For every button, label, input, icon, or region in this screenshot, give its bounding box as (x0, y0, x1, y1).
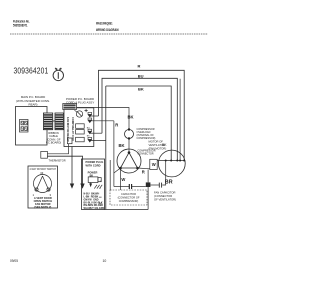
stamp circled symbol (53, 68, 63, 80)
svg-text:CONNECTOR: CONNECTOR (138, 153, 154, 156)
wire loop R (outer) (99, 70, 185, 160)
wire loop BK (inner) (106, 86, 171, 161)
thermistor connector (41, 151, 48, 158)
tiny cross component (85, 109, 88, 112)
svg-text:BR: BR (165, 179, 173, 185)
wire compressor left terminal down (120, 168, 122, 190)
relay rect 3 (76, 137, 85, 142)
header publication no (13, 20, 30, 28)
svg-text:WAS10M6Q8E1: WAS10M6Q8E1 (96, 22, 113, 26)
compressor capacitor label (118, 192, 140, 203)
svg-text:BU: BU (138, 73, 144, 78)
wire overload to compressor (128, 139, 130, 153)
svg-text:BK: BK (119, 143, 125, 148)
fan motor circle (158, 150, 185, 177)
svg-text:REAR): REAR) (29, 103, 38, 107)
power box side labels (99, 181, 102, 205)
compressor motor circle (117, 149, 141, 173)
wire fan capacitor to junction (150, 184, 159, 186)
wire loop BU (middle) (102, 78, 177, 160)
svg-text:09/05: 09/05 (10, 259, 18, 263)
power cord box (82, 159, 105, 210)
left board inner connector (20, 120, 29, 133)
relay rect 2 (76, 130, 85, 134)
connector symbol row3 (88, 137, 92, 142)
svg-text:CAPACITOR: CAPACITOR (121, 192, 136, 196)
svg-text:WIRING DIAGRAM: WIRING DIAGRAM (96, 28, 119, 32)
svg-text:R: R (142, 170, 145, 175)
left board box (16, 107, 48, 146)
relay switch circle (76, 111, 82, 117)
wire compressor left to W vertical (114, 168, 121, 173)
fan motor label (149, 140, 167, 151)
overload label text (137, 128, 156, 140)
ribbon cable connector right block (55, 113, 64, 130)
svg-text:BU: BU (87, 127, 90, 129)
svg-text:P.C.BOARD): P.C.BOARD) (46, 141, 61, 145)
board output wire row3 (90, 140, 106, 142)
wire compressor right to ladder (138, 167, 150, 170)
capacitor plates (129, 184, 131, 189)
wire W box down (147, 170, 149, 183)
wire W vertical (113, 121, 115, 187)
wire legend text block (84, 193, 105, 211)
right board box (64, 108, 94, 147)
svg-text:OF VENTILATOR): OF VENTILATOR) (154, 198, 176, 202)
ribbon blocks link line (53, 120, 55, 122)
svg-text:R: R (138, 63, 141, 68)
junction square (146, 182, 151, 187)
svg-text:POWER PLUG: POWER PLUG (86, 160, 104, 164)
svg-text:BK: BK (138, 86, 144, 91)
svg-text:COMPRESSOR): COMPRESSOR) (119, 199, 139, 203)
compressor connector label (138, 150, 156, 156)
wire junction to rail (147, 187, 149, 210)
svg-text:L: L (100, 188, 102, 190)
plug cord down arrow (89, 183, 92, 188)
svg-text:BK: BK (128, 115, 134, 120)
wire to overload (77, 108, 130, 130)
board output wire row1 (90, 120, 114, 122)
svg-text:WH-WHT GN-GRN: WH-WHT GN-GRN (84, 207, 105, 210)
wire W box to fan (157, 160, 158, 162)
rotary box caption (34, 196, 52, 209)
board output wire row0 (90, 115, 99, 117)
bottom rail wire (105, 209, 149, 211)
svg-text:10: 10 (103, 259, 107, 263)
arrow dark box to switch circle (75, 110, 78, 112)
rotary switch circle (34, 175, 52, 193)
compressor capacitor dashed box (110, 190, 147, 205)
svg-text:BU: BU (99, 203, 102, 205)
long down arrow (70, 147, 74, 189)
fan motor bottom wire (162, 161, 165, 186)
header separator rule (10, 33, 208, 35)
svg-text:BK: BK (99, 197, 102, 199)
svg-text:W: W (152, 162, 156, 167)
ground hatch (94, 185, 102, 189)
wire 4th vertical to fan (179, 79, 181, 161)
svg-text:BK: BK (162, 143, 167, 147)
connector symbol row0 (88, 112, 92, 117)
rotary switch box (28, 166, 58, 208)
thermistor wire up (48, 144, 69, 154)
fan capacitor label (154, 190, 176, 201)
svg-text:5995268971: 5995268971 (13, 23, 28, 27)
svg-text:R: R (115, 123, 118, 128)
vertical text columns (66, 117, 75, 142)
arrow wire from thermistor into power box (48, 156, 85, 189)
svg-text:FAN CAPACITOR: FAN CAPACITOR (154, 190, 175, 194)
transformer dark box (63, 104, 77, 110)
wire stub vertical (109, 160, 111, 190)
board fuse rect (67, 138, 72, 144)
compressor overload circle (125, 128, 134, 139)
svg-text:COMP RELAY CON: COMP RELAY CON (71, 117, 75, 141)
ribbon cable connector left block (43, 113, 52, 130)
svg-text:309364201: 309364201 (13, 66, 48, 76)
ribbon cable label (46, 131, 61, 145)
svg-text:(SEE NOTE 2): (SEE NOTE 2) (34, 205, 51, 209)
W terminal box (150, 159, 157, 169)
relay rect 1 (76, 124, 85, 129)
svg-text:(FAN MOTOR): (FAN MOTOR) (149, 146, 167, 150)
board output wire row2 (90, 132, 102, 134)
left board label text (16, 95, 50, 107)
svg-text:(CONNECTOR OF: (CONNECTOR OF (118, 196, 140, 200)
connector symbol row1 (88, 118, 92, 123)
plug symbol (88, 177, 101, 183)
svg-text:WITH CORD: WITH CORD (86, 164, 101, 168)
svg-text:THERMISTOR: THERMISTOR (49, 159, 66, 163)
capacitor wire horizontal (114, 186, 146, 188)
svg-text:(CONNECTOR: (CONNECTOR (154, 194, 172, 198)
wire BK left vertical to bottom rail (105, 86, 107, 210)
power cord box header text (86, 160, 104, 167)
svg-text:W: W (121, 177, 125, 182)
connector symbol row2 (88, 129, 92, 134)
right board label text (66, 97, 94, 104)
fan capacitor plates (159, 183, 161, 188)
